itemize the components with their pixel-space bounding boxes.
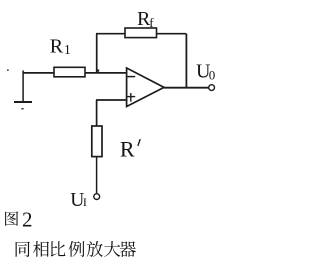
svg-text:0: 0 [209,68,216,83]
svg-text:2: 2 [22,207,33,231]
svg-text:1: 1 [64,42,71,57]
svg-text:f: f [149,15,154,30]
svg-text:R: R [50,35,64,57]
svg-text:I: I [83,195,87,209]
svg-text:R: R [120,137,135,162]
